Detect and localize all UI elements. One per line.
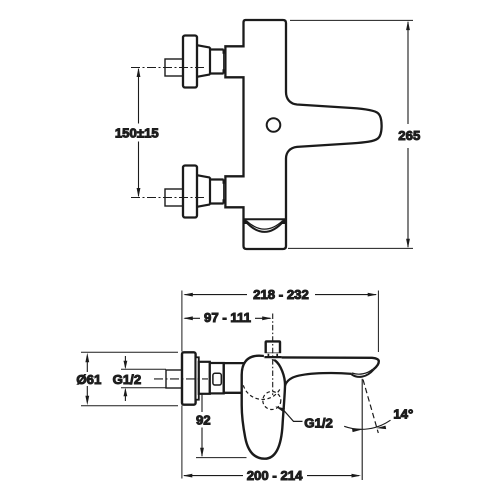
lower union thread end line bbox=[223, 180, 225, 203]
knob neck lines bbox=[268, 354, 277, 357]
lower wall flange (top view) bbox=[183, 166, 197, 218]
hidden cartridge dashed circle bbox=[243, 385, 280, 399]
hidden shower outlet dashed circle bbox=[263, 392, 281, 410]
spout underside curve bbox=[285, 373, 352, 386]
svg-text:200 - 214: 200 - 214 bbox=[247, 468, 303, 483]
dimension 92 centerline tick bbox=[198, 378, 207, 380]
knob base mask bbox=[264, 353, 282, 359]
svg-text:14°: 14° bbox=[393, 407, 413, 422]
extension line bottom for 265 bbox=[288, 247, 413, 249]
upper wall flange (top view) bbox=[183, 36, 197, 88]
svg-text:G1/2: G1/2 bbox=[113, 372, 142, 387]
upper union adapter stage A bbox=[197, 45, 210, 77]
dimension 218-232 line bbox=[185, 294, 377, 296]
lower union adapter stage B bbox=[210, 180, 224, 204]
14° angle arc bbox=[344, 420, 390, 429]
dimension 200-214 arrowheads bbox=[183, 474, 361, 478]
lower union adapter stage A bbox=[197, 175, 210, 207]
dimension 97-111 arrowheads bbox=[183, 316, 271, 320]
G1/2 left dimension line with outside arrows bbox=[124, 356, 126, 401]
svg-text:150±15: 150±15 bbox=[115, 125, 159, 140]
G1/2 left extension lines bbox=[121, 369, 166, 387]
dimension 150±15 arrowheads bbox=[137, 68, 141, 198]
spout face corner ticks bbox=[245, 219, 283, 224]
upper inlet nut (top view) bbox=[165, 59, 183, 76]
lower inlet nut (top view) bbox=[165, 189, 183, 206]
diverter knob (front view) bbox=[266, 341, 280, 353]
dimension 92 arrowheads bbox=[200, 379, 204, 457]
Ø61 dimension line bbox=[86, 356, 88, 402]
G1/2 right leader arrowhead bbox=[275, 406, 285, 411]
spout top edge (front view) bbox=[282, 357, 379, 369]
bottom extension line for 92 bbox=[196, 457, 247, 459]
lower inlet centerline bbox=[131, 197, 206, 199]
dimension 200-214 line bbox=[184, 475, 359, 477]
14° dashed flow line bbox=[363, 380, 378, 434]
svg-text:97 - 111: 97 - 111 bbox=[204, 310, 251, 325]
dimension 92 line bbox=[201, 381, 203, 456]
right extension line for 218-232 bbox=[377, 291, 379, 353]
spout face top line (top view) bbox=[245, 218, 286, 220]
G1/2 right leader line bbox=[284, 411, 303, 422]
dimension 265 arrowheads bbox=[406, 21, 410, 249]
Ø61 extension lines bbox=[81, 352, 178, 405]
adapter stage B (front view) bbox=[210, 363, 224, 393]
handle body blob (front view) bbox=[242, 356, 285, 459]
handle screw hole circle (top view) bbox=[267, 118, 281, 132]
upper inlet centerline bbox=[131, 67, 206, 69]
dimension 97-111 line bbox=[185, 317, 271, 319]
upper union adapter stage B bbox=[210, 50, 224, 74]
svg-text:Ø61: Ø61 bbox=[76, 372, 101, 387]
dimension 218-232 arrowheads bbox=[183, 293, 377, 297]
spout face outer arc (top view) bbox=[245, 221, 284, 232]
svg-text:265: 265 bbox=[398, 128, 420, 143]
adapter stage A (front view) bbox=[199, 362, 210, 394]
flange back ring bbox=[196, 357, 199, 399]
spout face inner arc (top view) bbox=[247, 221, 283, 229]
Ø61 arrowheads bbox=[85, 353, 89, 405]
dimension 265 line bbox=[407, 22, 409, 247]
valve body lines (front view) bbox=[224, 363, 245, 393]
left extension line (wall plane) bbox=[181, 291, 183, 479]
cartridge axis centerline bbox=[272, 314, 274, 396]
svg-text:92: 92 bbox=[196, 413, 211, 428]
spout mouth crescent bbox=[352, 370, 374, 377]
thread square inside adapter bbox=[213, 373, 221, 385]
14° arc arrowheads bbox=[352, 426, 386, 433]
plumb line from spout outlet bbox=[361, 379, 363, 480]
upper union thread end line bbox=[223, 50, 225, 73]
inlet nut (front view) bbox=[166, 370, 182, 388]
lower union end caps bbox=[223, 179, 226, 203]
extension line top for 265 bbox=[290, 19, 413, 21]
svg-text:218 - 232: 218 - 232 bbox=[253, 287, 309, 302]
inlet centerline (front view) bbox=[154, 378, 208, 380]
faucet body outline (top view) bbox=[225, 20, 381, 249]
svg-text:G1/2: G1/2 bbox=[304, 416, 333, 431]
wall flange (front view) bbox=[182, 352, 196, 404]
valve body end line bbox=[223, 363, 225, 393]
upper union end caps bbox=[223, 49, 226, 73]
dimension 150±15 line bbox=[138, 69, 140, 196]
knob collar bbox=[264, 356, 281, 358]
